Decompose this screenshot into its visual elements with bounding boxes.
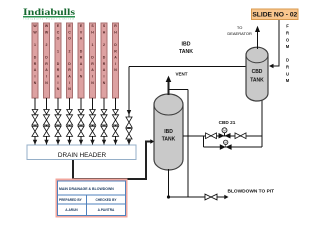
drain pipe 6 gate valve lower: [89, 126, 95, 136]
drain pipe 6 gate valve upper: [89, 115, 95, 125]
drain label bar 4 (ECO 2 DRAIN): [67, 23, 73, 98]
drain pipe 1 open arrowhead: [32, 110, 38, 115]
drain pipe 7 gate valve upper: [101, 115, 107, 125]
svg-text:TANK: TANK: [250, 78, 264, 84]
drain pipe 4 gate valve upper: [66, 115, 72, 125]
drain pipe 1 arrowhead into header: [33, 140, 37, 145]
blowdown arrowhead: [224, 195, 228, 199]
CBD21 bypass right leg: [261, 136, 263, 147]
riser pipe to CBD tank: [261, 100, 263, 136]
vent arrowhead: [166, 76, 172, 82]
svg-text:CBD: CBD: [252, 69, 263, 75]
CBD21 upper pipe run: [204, 135, 262, 137]
isolation valve V1 (upper left): [206, 133, 217, 139]
equalizing line down to blowdown pipe: [187, 90, 189, 197]
junction node: [167, 195, 170, 198]
drain pipe 5 wire: [80, 98, 82, 145]
CBD21 bypass lower pipe run: [204, 146, 262, 148]
drain pipe 5 open arrowhead: [78, 110, 84, 115]
IBD TANK text label: [179, 42, 193, 55]
svg-text:BLOWDOWN TO PIT: BLOWDOWN TO PIT: [228, 188, 275, 194]
CBD drain arrowhead: [127, 110, 131, 115]
drain label bar 7 (SH 2 DRAIN): [101, 23, 107, 98]
drain pipe 5 gate valve upper: [78, 115, 84, 125]
vent branch stub: [169, 89, 189, 91]
drain pipe 8 wire: [115, 98, 117, 145]
blowdown valve: [205, 194, 217, 200]
slide number box SLIDE NO - 02: [252, 9, 299, 20]
drain pipe 1 gate valve lower: [32, 126, 38, 136]
drain pipe 4 wire: [69, 98, 71, 145]
drain pipe 2 gate valve lower: [43, 126, 49, 136]
FROM DRUM arrowhead: [269, 64, 274, 68]
CBD tank drain pipe: vertical drop to drain header: [128, 67, 130, 145]
drain pipe 5 arrowhead into header: [79, 140, 83, 145]
CBD tank vessel: [246, 47, 268, 101]
svg-text:Indiabulls Power Limited: Indiabulls Power Limited: [24, 17, 74, 20]
svg-text:CBD 21: CBD 21: [219, 120, 236, 125]
IBD tank vessel: [154, 94, 183, 170]
drain pipe 7 gate valve lower: [101, 126, 107, 136]
drain label bar 6 (SH 1 DRAIN): [90, 23, 96, 98]
drain pipe 2 gate valve upper: [43, 115, 49, 125]
drain pipe 2 arrowhead into header: [44, 140, 48, 145]
drain pipe 3 gate valve upper: [55, 115, 61, 125]
arrowhead into IBD tank: [150, 139, 154, 143]
CBD drain gate valve upper: [126, 117, 132, 127]
drain pipe 3 arrowhead into header: [56, 140, 60, 145]
drain pipe 7 open arrowhead: [101, 110, 107, 115]
svg-text:SLIDE NO - 02: SLIDE NO - 02: [252, 12, 297, 19]
drain pipe 4 arrowhead into header: [67, 140, 71, 145]
drain pipe 7 arrowhead into header: [102, 140, 106, 145]
svg-text:TANK: TANK: [179, 49, 193, 55]
drain pipe 8 gate valve lower: [112, 126, 118, 136]
control valve CBD 21 (solid, with actuator): [219, 128, 231, 139]
drain header vessel: [27, 145, 136, 160]
FROM DRUM label: [286, 24, 290, 83]
drain pipe 7 wire: [103, 98, 105, 145]
svg-text:DRUM: DRUM: [286, 58, 290, 83]
drain pipe 1 wire: [34, 98, 36, 145]
svg-text:FROM: FROM: [286, 24, 290, 49]
svg-text:A.ARUN: A.ARUN: [65, 208, 78, 212]
CBD21 bypass left leg: [203, 136, 205, 147]
TO DEAERATOR label: [227, 25, 252, 36]
drain label bar 5 (EVA DRAIN): [78, 23, 84, 98]
svg-text:DRAIN HEADER: DRAIN HEADER: [58, 152, 107, 159]
drain pipe 8 open arrowhead: [113, 110, 119, 115]
drain pipe 2 wire: [46, 98, 48, 145]
IBD tank vent pipe: [168, 81, 170, 96]
drain label bar 2 (WW 2 DRAIN): [44, 23, 50, 98]
IBD tank inlet pipe from CBD21 valves: [183, 135, 204, 137]
drain pipe 6 arrowhead into header: [90, 140, 94, 145]
drain pipe 3 wire: [57, 98, 59, 145]
isolation valve V2 (upper right): [235, 133, 246, 139]
svg-text:VENT: VENT: [176, 71, 188, 76]
drain pipe 2 open arrowhead: [44, 110, 50, 115]
FROM DRUM pipe: [274, 20, 280, 66]
svg-text:MAIN DRAINAGE & BLOWDOWN: MAIN DRAINAGE & BLOWDOWN: [59, 187, 114, 191]
svg-text:DEAERATOR: DEAERATOR: [227, 31, 252, 36]
drain pipe 1 gate valve upper: [32, 115, 38, 125]
CBD drain gate valve lower: [126, 129, 132, 139]
svg-text:TANK: TANK: [162, 137, 176, 143]
deaerator arrowhead: [255, 26, 260, 32]
drain pipe 3 open arrowhead: [55, 110, 61, 115]
svg-text:CHECKED BY: CHECKED BY: [95, 198, 117, 202]
bypass valve (solid, with actuator): [220, 140, 232, 150]
drain label bar 3 (ECO 1 DRAIN): [55, 23, 61, 98]
drain pipe 6 wire: [92, 98, 94, 145]
drain pipe 5 gate valve lower: [78, 126, 84, 136]
Indiabulls logo: [23, 7, 75, 20]
drain pipe 3 gate valve lower: [55, 126, 61, 136]
svg-text:TO: TO: [237, 25, 242, 30]
drain label bar 1 (WW 1 DRAIN): [32, 23, 38, 98]
CBD tank drain pipe: horizontal run: [129, 66, 247, 68]
drain pipe 4 gate valve lower: [66, 126, 72, 136]
drain pipe 4 open arrowhead: [67, 110, 73, 115]
pipe to deaerator: [257, 31, 259, 50]
blowdown pipe run: [169, 196, 225, 198]
drain header discharge pipe to IBD tank: [73, 142, 151, 180]
drain label bar 8 (RH DRAIN): [113, 23, 119, 98]
svg-text:IBD: IBD: [164, 129, 173, 135]
drain pipe 6 open arrowhead: [90, 110, 96, 115]
title block table: [57, 180, 127, 217]
CBD drain arrowhead into header: [127, 140, 131, 145]
svg-text:IBD: IBD: [182, 42, 191, 48]
svg-text:A.PAVITRA: A.PAVITRA: [98, 208, 115, 212]
IBD tank bottom outlet pipe: [168, 169, 170, 197]
drain pipe 8 arrowhead into header: [113, 140, 117, 145]
drain pipe 8 gate valve upper: [112, 115, 118, 125]
svg-text:PREPARED BY: PREPARED BY: [59, 198, 83, 202]
